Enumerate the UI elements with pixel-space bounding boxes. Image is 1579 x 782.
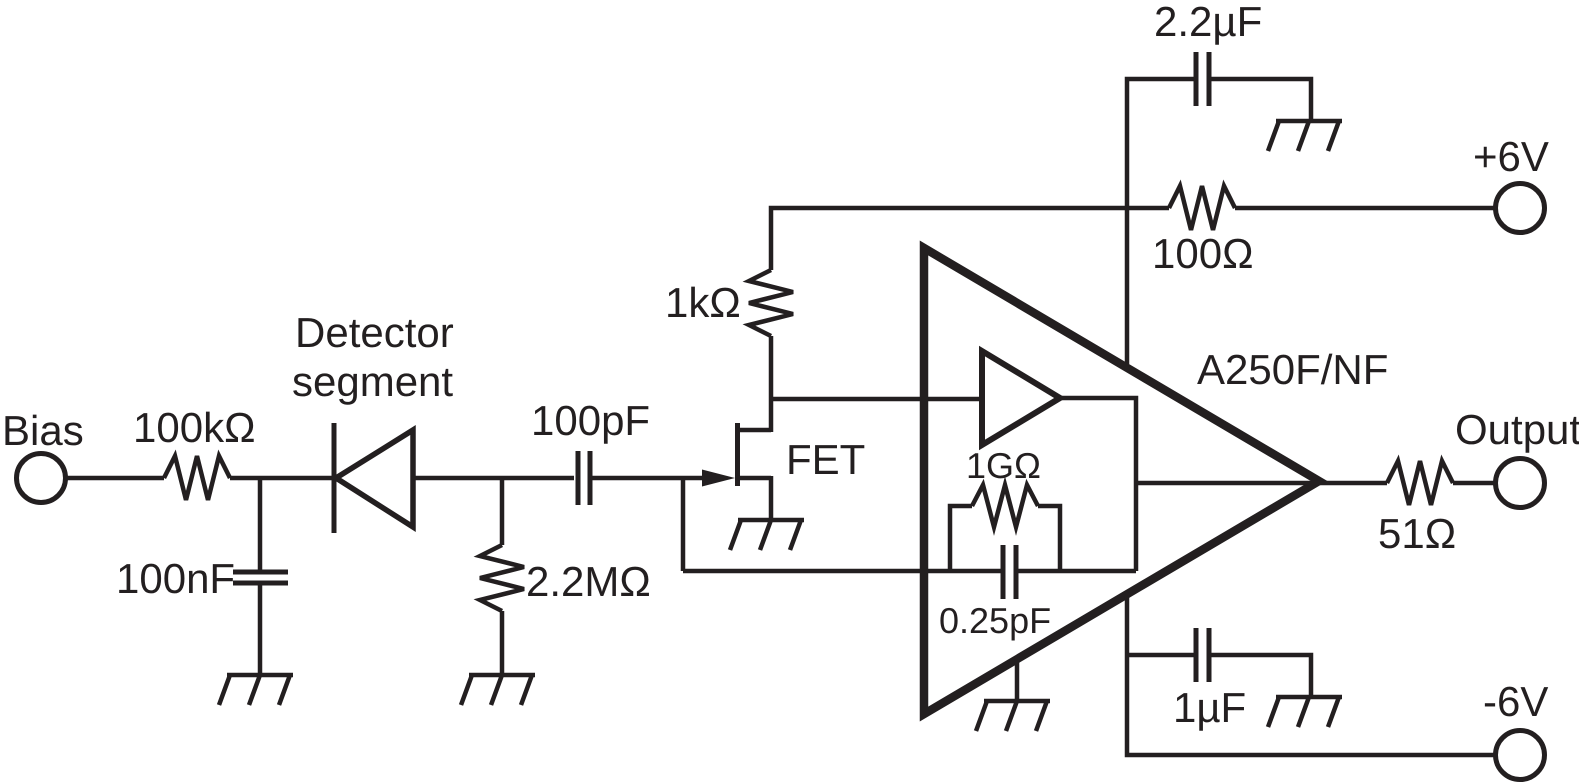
capacitor 1uF xyxy=(1196,628,1209,682)
wire 1uF to ground xyxy=(1211,655,1311,697)
wire -6V rail to 1uF branch xyxy=(1127,653,1194,658)
wire buffer output xyxy=(1060,398,1136,571)
wire R 100k to diode xyxy=(230,476,333,481)
svg-text:+6V: +6V xyxy=(1473,133,1549,180)
node +6V terminal xyxy=(1496,184,1545,233)
wire node B down to R 2.2M xyxy=(500,478,505,545)
wire node A down to C 100nF xyxy=(258,478,263,570)
resistor 1GOhm xyxy=(972,485,1038,527)
svg-text:Detector: Detector xyxy=(295,309,454,356)
ground under opamp xyxy=(976,701,1050,731)
wire R 2.2M to ground xyxy=(500,611,505,675)
svg-text:-6V: -6V xyxy=(1483,678,1548,725)
wire C 100pF to FET gate xyxy=(592,476,704,481)
wire Bias to R 100k xyxy=(65,476,164,481)
capacitor 0.25pF xyxy=(1003,545,1016,599)
resistor 1GOhm loop right xyxy=(1038,506,1060,571)
svg-text:Bias: Bias xyxy=(2,407,84,454)
transistor FET channel bar xyxy=(735,423,740,486)
svg-text:Output: Output xyxy=(1455,406,1579,453)
svg-text:2.2MΩ: 2.2MΩ xyxy=(526,558,651,605)
resistor 51Ohm xyxy=(1387,461,1453,505)
ground under 1uF xyxy=(1268,697,1342,727)
diode D1 detector cathode bar xyxy=(332,423,337,533)
resistor 100kOhm xyxy=(164,456,230,500)
diode D1 detector triangle xyxy=(336,430,413,527)
resistor 2.2MOhm xyxy=(480,545,524,611)
wire +6V rail down to opamp top edge xyxy=(1125,208,1130,364)
wire C 100nF to ground xyxy=(258,585,263,675)
wire drain up to R 1k xyxy=(769,336,774,432)
ground under 2.2M xyxy=(461,675,535,705)
wire buffer output down to output node xyxy=(1136,481,1316,486)
svg-text:1µF: 1µF xyxy=(1173,684,1246,731)
wire opamp bottom to -6V rail xyxy=(1127,596,1496,755)
node Bias terminal xyxy=(17,454,66,503)
wire R 51 to Output terminal xyxy=(1453,481,1496,486)
wire +6V rail up to 2.2uF branch xyxy=(1127,79,1194,208)
wire opamp ground stub xyxy=(1015,656,1020,701)
capacitor 100pF xyxy=(578,451,590,505)
ground under 100nF xyxy=(219,675,293,705)
svg-text:100pF: 100pF xyxy=(531,397,650,444)
capacitor 100nF xyxy=(233,572,288,583)
svg-text:51Ω: 51Ω xyxy=(1378,510,1456,557)
svg-text:100Ω: 100Ω xyxy=(1152,230,1253,277)
transistor FET drain lead xyxy=(738,428,771,433)
resistor 1GOhm loop left xyxy=(950,506,972,571)
wire gate node down to feedback xyxy=(681,478,686,571)
wire opamp output xyxy=(1316,481,1387,486)
wire R 100 to +6V terminal xyxy=(1235,206,1496,211)
svg-text:segment: segment xyxy=(292,358,453,405)
wire feedback right segment xyxy=(1018,569,1136,574)
capacitor 2.2uF xyxy=(1196,52,1209,106)
resistor 1kOhm xyxy=(749,270,793,336)
wire 2.2uF to ground xyxy=(1211,79,1311,121)
svg-text:FET: FET xyxy=(786,436,865,483)
svg-text:1GΩ: 1GΩ xyxy=(966,445,1041,486)
svg-text:100nF: 100nF xyxy=(116,555,235,602)
svg-text:0.25pF: 0.25pF xyxy=(939,600,1051,641)
transistor FET source lead xyxy=(738,476,771,520)
wire R 1k to +6V rail corner xyxy=(771,208,1169,270)
svg-text:100kΩ: 100kΩ xyxy=(133,404,255,451)
wire feedback line to opamp xyxy=(683,569,1001,574)
svg-text:1kΩ: 1kΩ xyxy=(665,279,741,326)
node Output terminal xyxy=(1496,459,1545,508)
op-amp A250F/NF body xyxy=(924,248,1319,714)
resistor 100Ohm xyxy=(1169,186,1235,230)
svg-text:A250F/NF: A250F/NF xyxy=(1197,346,1388,393)
wire drain node to opamp input xyxy=(771,397,982,402)
node -6V terminal xyxy=(1496,731,1545,780)
wire diode to C 100pF xyxy=(413,476,574,481)
ground under FET source xyxy=(730,520,804,550)
gate arrowhead xyxy=(702,470,735,487)
op-amp internal buffer triangle U2 xyxy=(982,351,1060,445)
svg-text:2.2µF: 2.2µF xyxy=(1154,0,1262,45)
ground under 2.2uF xyxy=(1268,121,1342,151)
